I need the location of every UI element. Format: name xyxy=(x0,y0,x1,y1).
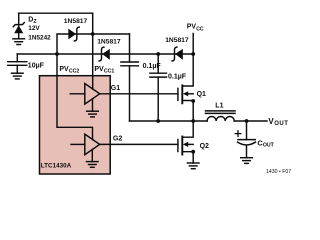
ground (driver2) xyxy=(87,150,99,168)
label PVcc1 pin xyxy=(94,66,114,75)
diode D1 1N5817 xyxy=(68,27,79,41)
svg-text:PV: PV xyxy=(59,66,69,73)
svg-text:CC1: CC1 xyxy=(104,69,114,75)
wire Vout xyxy=(234,120,267,122)
svg-text:CC2: CC2 xyxy=(69,69,79,75)
wire diode D1 branch y34 xyxy=(57,34,130,54)
op-amp driver2 (lower) xyxy=(71,134,100,155)
capacitor C2 0.1uF xyxy=(150,54,167,121)
label PVcc2 pin xyxy=(59,66,79,75)
ground (zener) xyxy=(13,39,25,45)
svg-text:LTC1430A: LTC1430A xyxy=(41,163,72,170)
node junction rail-PVcc2 xyxy=(55,52,59,56)
node junction Cout xyxy=(245,119,249,123)
node junction Q1/Q2 xyxy=(191,119,195,123)
svg-text:1N5817: 1N5817 xyxy=(64,18,88,25)
zener DZ stub xyxy=(18,13,20,25)
label COUT xyxy=(257,138,274,148)
wire PVcc1 vertical xyxy=(92,13,94,89)
block U1 LTC1430A xyxy=(40,76,111,174)
label DZ 12V 1N5242 xyxy=(28,16,51,41)
capacitor 10uF xyxy=(8,62,27,73)
capacitor C1 0.1uF xyxy=(121,34,138,121)
wire PVcc stub xyxy=(192,34,194,55)
svg-text:OUT: OUT xyxy=(263,143,275,149)
svg-text:1N5817: 1N5817 xyxy=(97,39,121,46)
ground (10uF) xyxy=(12,73,24,79)
svg-text:0.1µF: 0.1µF xyxy=(168,74,187,81)
svg-text:OUT: OUT xyxy=(274,121,288,127)
wire PVcc2 rail y54 xyxy=(17,53,193,55)
wire G1 xyxy=(100,93,178,95)
label + (Cout polarity) xyxy=(235,131,241,137)
svg-text:CC: CC xyxy=(196,26,204,32)
label PVcc xyxy=(187,24,204,33)
wire top rail xyxy=(19,12,93,14)
node junction Q2 source xyxy=(191,150,195,154)
svg-text:Q1: Q1 xyxy=(197,91,206,98)
ground (Cout) xyxy=(241,158,253,164)
capacitor COUT xyxy=(238,121,256,158)
wire SW node xyxy=(130,120,208,122)
transistor Q1 xyxy=(178,54,193,121)
svg-text:1N5817: 1N5817 xyxy=(165,37,189,44)
node junction Q1 source xyxy=(191,99,195,103)
svg-text:G1: G1 xyxy=(111,85,120,92)
svg-text:1N5242: 1N5242 xyxy=(28,34,51,41)
ground (Q2) xyxy=(187,163,199,169)
svg-text:12V: 12V xyxy=(28,25,40,32)
wire PVcc2 pin into block xyxy=(57,54,93,140)
svg-text:L1: L1 xyxy=(215,103,223,110)
diode D3 1N5817 xyxy=(172,47,183,61)
svg-text:PV: PV xyxy=(187,24,197,31)
node junction cap2 bottom xyxy=(156,119,160,123)
zener DZ 1N5242 xyxy=(13,23,24,39)
node junction D1 cathode xyxy=(91,32,95,36)
svg-text:10µF: 10µF xyxy=(28,63,45,70)
op-amp driver1 (upper) xyxy=(70,84,99,105)
svg-text:G2: G2 xyxy=(113,135,122,142)
inductor L1 xyxy=(206,111,236,121)
diode D2 1N5817 xyxy=(99,47,110,61)
node junction cap2 top xyxy=(156,52,160,56)
svg-text:PV: PV xyxy=(94,66,104,73)
ground (driver1) xyxy=(87,99,99,117)
wire G2 xyxy=(100,143,178,145)
svg-text:Q2: Q2 xyxy=(200,143,209,150)
transistor Q2 xyxy=(178,121,193,163)
label VOUT xyxy=(268,117,288,127)
wire rail corner to 10uF xyxy=(16,54,18,62)
node junction D3 anode xyxy=(191,52,195,56)
svg-text:1430 • F07: 1430 • F07 xyxy=(266,169,291,175)
